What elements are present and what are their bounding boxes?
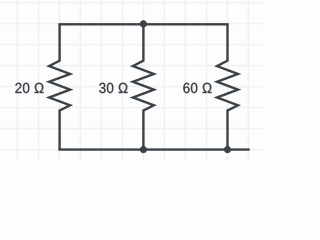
resistor R3 60ohm bbox=[217, 24, 238, 149]
resistor R2 30ohm bbox=[133, 24, 154, 149]
junction bottom node E bbox=[140, 146, 147, 153]
label 30 ohm bbox=[99, 83, 127, 93]
label 20 ohm bbox=[15, 83, 43, 93]
wire bottom bus bbox=[58, 148, 249, 150]
resistor R1 20ohm bbox=[49, 24, 70, 149]
label 60 ohm bbox=[183, 83, 211, 93]
wire top bus bbox=[58, 23, 228, 25]
junction bottom node F bbox=[224, 146, 231, 153]
junction top node B bbox=[140, 20, 147, 27]
